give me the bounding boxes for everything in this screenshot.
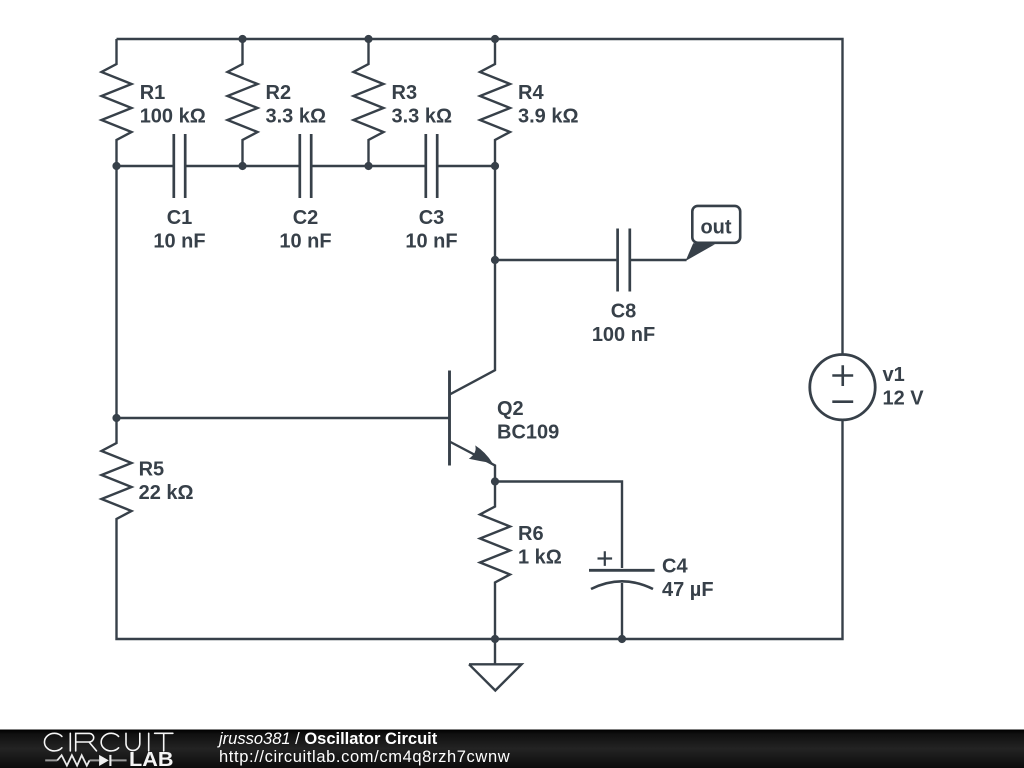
out flag tail xyxy=(686,243,716,261)
node junction (495,639) xyxy=(491,635,499,643)
svg-text:C4: C4 xyxy=(662,556,688,578)
svg-text:C2: C2 xyxy=(293,207,319,229)
node junction (495,39) xyxy=(491,35,499,43)
svg-text:22 kΩ: 22 kΩ xyxy=(139,482,194,504)
svg-text:100 kΩ: 100 kΩ xyxy=(140,106,206,128)
voltage source v1 circle xyxy=(810,355,875,420)
svg-text:12 V: 12 V xyxy=(883,388,925,410)
transistor Q2 emitter xyxy=(450,442,496,482)
node junction (116.5,166) xyxy=(112,162,120,170)
svg-text:1 kΩ: 1 kΩ xyxy=(518,547,562,569)
resistor R1 xyxy=(102,39,132,166)
svg-text:R4: R4 xyxy=(518,82,544,104)
svg-text:3.9 kΩ: 3.9 kΩ xyxy=(518,106,579,128)
resistor R4 xyxy=(480,39,510,166)
svg-text:jrusso381 / Oscillator Circuit: jrusso381 / Oscillator Circuit xyxy=(217,730,438,748)
logo resistor squiggle xyxy=(57,755,89,765)
ground symbol xyxy=(469,639,522,691)
node junction (495,260) xyxy=(491,256,499,264)
resistor R5 xyxy=(102,418,132,545)
capacitor C3 xyxy=(426,134,437,198)
svg-text:R2: R2 xyxy=(266,82,292,104)
svg-text:10 nF: 10 nF xyxy=(405,231,457,253)
node junction (495,481.5) xyxy=(491,477,499,485)
node junction (368.5,166) xyxy=(364,162,372,170)
voltage source v1 minus xyxy=(832,400,853,403)
svg-text:C3: C3 xyxy=(419,207,445,229)
wire: C8 output wire xyxy=(495,259,687,261)
wire: RC ladder rail y=166 (interrupted by cap plates) xyxy=(117,165,496,167)
svg-text:Q2: Q2 xyxy=(497,398,524,420)
node junction (495,166) xyxy=(491,162,499,170)
logo diode symbol xyxy=(99,755,109,766)
svg-text:v1: v1 xyxy=(883,364,905,386)
node junction (242.5,166) xyxy=(238,162,246,170)
transistor Q2 base bar xyxy=(448,371,451,466)
voltage source v1 plus xyxy=(832,365,853,386)
capacitor C8 xyxy=(618,229,630,292)
node junction (622,639) xyxy=(618,635,626,643)
node junction (116.5,418) xyxy=(112,414,120,422)
svg-text:LAB: LAB xyxy=(129,749,174,768)
svg-text:47 µF: 47 µF xyxy=(662,579,714,601)
wire: C4 bottom lead xyxy=(621,583,623,639)
resistor R3 xyxy=(354,39,384,166)
wire: base wire to Q2 xyxy=(117,417,450,419)
resistor R2 xyxy=(228,39,258,166)
wire: R6 to bottom rail xyxy=(494,609,496,640)
svg-text:C8: C8 xyxy=(611,301,637,323)
svg-text:10 nF: 10 nF xyxy=(279,231,331,253)
svg-text:3.3 kΩ: 3.3 kΩ xyxy=(266,106,327,128)
svg-text:http://circuitlab.com/cm4q8rzh: http://circuitlab.com/cm4q8rzh7cwnw xyxy=(219,748,510,766)
node junction (242.5,39) xyxy=(238,35,246,43)
transistor Q2 emitter arrow xyxy=(469,445,493,463)
capacitor C4 (polarized) top plate xyxy=(589,569,655,572)
svg-text:R6: R6 xyxy=(518,523,544,545)
svg-text:R5: R5 xyxy=(139,459,165,481)
wire: right rail lower + bottom ground rail + left rail lowest xyxy=(117,420,843,639)
out flag box xyxy=(692,206,740,243)
capacitor C1 xyxy=(174,134,185,198)
wire: left rail between node rows xyxy=(115,166,117,418)
logo wire segments xyxy=(45,759,126,761)
wire: top supply rail + right rail upper xyxy=(117,39,843,355)
svg-text:10 nF: 10 nF xyxy=(153,231,205,253)
svg-text:out: out xyxy=(700,217,731,239)
wire: emitter junction to C4 top xyxy=(495,482,622,569)
svg-text:R1: R1 xyxy=(140,82,166,104)
svg-text:100 nF: 100 nF xyxy=(592,324,655,346)
capacitor C4 curved bottom plate xyxy=(591,581,653,589)
capacitor C2 xyxy=(300,134,311,198)
svg-text:3.3 kΩ: 3.3 kΩ xyxy=(392,106,453,128)
svg-text:BC109: BC109 xyxy=(497,422,559,444)
logo CIRCUIT lettering xyxy=(44,733,172,751)
svg-text:C1: C1 xyxy=(167,207,193,229)
node junction (368.5,39) xyxy=(364,35,372,43)
wire: collector drop from R4 node through C8 junction xyxy=(450,166,496,395)
capacitor C4 polarity plus xyxy=(598,551,613,566)
resistor R6 xyxy=(480,482,510,609)
svg-text:R3: R3 xyxy=(392,82,418,104)
